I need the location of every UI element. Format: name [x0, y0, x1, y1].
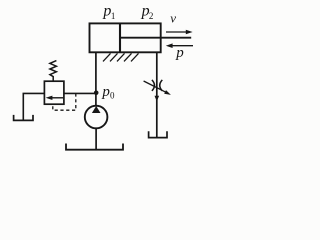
wire: relief valve outlet to tank [23, 93, 44, 120]
pump U1 [85, 106, 108, 129]
wire: pump suction [95, 128, 97, 149]
tank under pump [66, 144, 123, 150]
wire: cylinder cap side down to pump [95, 52, 97, 106]
wire: relief valve inlet from node p0 [64, 92, 96, 94]
throttle adjustment arrow [144, 81, 171, 95]
flow direction arrow on throttle line [155, 96, 160, 102]
velocity arrow v [166, 30, 193, 35]
relief valve flow arrow [46, 96, 64, 100]
relief valve pilot line (dashed) [53, 93, 76, 110]
svg-text:2: 2 [149, 11, 154, 21]
throttle valve arcs [152, 80, 162, 91]
wire: cylinder rod side down to tank through throttle [156, 52, 158, 137]
cylinder body [90, 23, 161, 52]
relief valve spring [50, 61, 57, 82]
tank under throttle [149, 131, 167, 137]
pressure arrow p [166, 43, 193, 48]
relief valve body V1 [44, 81, 64, 104]
node p0 junction [94, 91, 99, 96]
piston [119, 23, 121, 52]
svg-text:0: 0 [110, 90, 115, 100]
tank under relief valve [14, 115, 33, 121]
svg-text:v: v [170, 10, 176, 25]
svg-text:1: 1 [111, 11, 116, 21]
mounting hatching [103, 53, 139, 61]
svg-text:p: p [175, 45, 184, 61]
piston rod [120, 37, 191, 39]
